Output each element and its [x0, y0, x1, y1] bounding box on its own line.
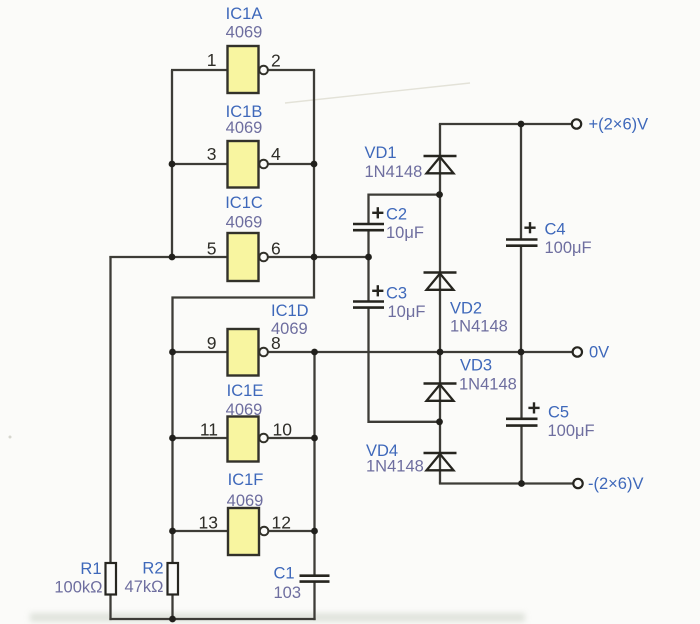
diode VD4	[424, 453, 457, 470]
svg-text:C3: C3	[386, 285, 407, 303]
svg-text:3: 3	[207, 144, 217, 164]
svg-text:4069: 4069	[226, 24, 263, 42]
resistor R1	[106, 563, 117, 595]
capacitor C3	[353, 285, 384, 307]
junction C4/C5 at 0V	[518, 349, 525, 356]
svg-text:+(2×6)V: +(2×6)V	[589, 116, 649, 134]
wire 0V rail from pin 8	[268, 351, 574, 353]
svg-text:10: 10	[273, 420, 293, 440]
junction pin 4 output	[311, 161, 318, 168]
op-amp U1 inverter IC1B	[228, 141, 268, 188]
svg-text:-(2×6)V: -(2×6)V	[588, 475, 643, 493]
svg-text:VD1: VD1	[365, 144, 397, 162]
svg-text:1N4148: 1N4148	[365, 163, 423, 181]
wire feedback from node 6 down-left to pin 9	[173, 257, 315, 352]
svg-text:0V: 0V	[589, 344, 609, 362]
svg-text:100kΩ: 100kΩ	[54, 579, 102, 597]
wire IC1D input	[173, 351, 229, 353]
capacitor C1	[300, 576, 330, 582]
junction pin 13 input	[169, 528, 176, 535]
svg-text:1N4148: 1N4148	[366, 458, 424, 476]
svg-text:5: 5	[207, 239, 217, 259]
svg-text:C1: C1	[274, 565, 295, 583]
wire input bus bottom (pins 9,11,13) to R2	[171, 352, 173, 564]
wire R1 branch vertical	[109, 256, 111, 564]
junction R2 bottom	[169, 616, 176, 623]
svg-text:47kΩ: 47kΩ	[125, 578, 164, 596]
capacitor C5	[506, 402, 540, 425]
wire IC1C output to C2/C3 node	[268, 256, 369, 258]
svg-text:1N4148: 1N4148	[459, 376, 517, 394]
junction pin 10 output	[311, 435, 318, 442]
wire C1 bottom leg	[313, 582, 315, 621]
wire R2 bottom leg	[171, 594, 173, 620]
svg-text:10μF: 10μF	[386, 224, 424, 242]
op-amp U1 inverter IC1D	[228, 329, 268, 376]
svg-text:IC1D: IC1D	[271, 302, 309, 320]
svg-text:2: 2	[271, 51, 281, 71]
svg-text:C4: C4	[545, 221, 566, 239]
junction VD2/VD3 at 0V	[437, 349, 444, 356]
junction VD1 anode / C2	[436, 191, 443, 198]
junction pin 3 input	[169, 161, 176, 168]
svg-text:6: 6	[271, 239, 281, 259]
junction pin 11 input	[169, 435, 176, 442]
svg-text:4069: 4069	[226, 119, 263, 137]
svg-text:IC1E: IC1E	[227, 382, 264, 400]
wire IC1A input	[171, 69, 229, 71]
wire IC1E input	[173, 437, 229, 439]
svg-text:VD3: VD3	[460, 357, 492, 375]
op-amp U1 inverter IC1F	[228, 508, 268, 555]
wire top rail +(2x6)V	[439, 123, 572, 125]
wire IC1F input	[173, 530, 229, 532]
svg-text:10μF: 10μF	[388, 303, 426, 321]
junction pin 12 output	[311, 528, 318, 535]
terminal +(2x6)V	[572, 119, 581, 128]
wire diode chain vertical VD1-VD4	[439, 124, 441, 484]
terminal 0V	[573, 347, 582, 356]
op-amp U1 inverter IC1E	[228, 417, 268, 462]
diode VD1	[424, 156, 457, 173]
wire output bus bottom (pins 8,10,12) to C1	[313, 352, 315, 576]
wire R1 bottom leg	[109, 594, 111, 620]
svg-text:IC1F: IC1F	[228, 471, 264, 489]
junction C5 bottom rail	[518, 480, 525, 487]
svg-text:8: 8	[271, 333, 281, 353]
terminal -(2x6)V	[573, 479, 582, 488]
resistor R2	[168, 563, 179, 595]
junction pin 8 output	[311, 349, 318, 356]
op-amp U1 inverter IC1A	[228, 46, 268, 93]
svg-text:13: 13	[199, 513, 218, 533]
wire IC1E output	[268, 437, 315, 439]
diode VD3	[424, 384, 457, 401]
svg-text:4069: 4069	[226, 401, 263, 419]
wire C2 to C3	[367, 230, 369, 302]
svg-text:4069: 4069	[227, 492, 264, 510]
svg-text:IC1C: IC1C	[225, 194, 263, 212]
junction VD4 cathode / C3	[436, 418, 443, 425]
svg-text:VD2: VD2	[450, 300, 482, 318]
wire C2 top to VD1/VD2 node	[369, 195, 440, 224]
svg-text:103: 103	[274, 584, 302, 602]
svg-text:4069: 4069	[226, 214, 263, 232]
wire C3 bottom to VD3/VD4 node	[369, 308, 440, 422]
svg-text:1N4148: 1N4148	[450, 318, 508, 336]
op-amp U1 inverter IC1C	[228, 233, 268, 281]
junction C2/C3 node 6	[365, 254, 372, 261]
wire IC1A output	[268, 69, 316, 71]
svg-text:IC1A: IC1A	[226, 5, 263, 23]
wire bottom rail -(2x6)V	[439, 482, 574, 484]
wire IC1B output	[268, 163, 315, 165]
svg-text:11: 11	[200, 420, 218, 440]
wire C4 top leg	[520, 124, 522, 240]
junction pin 5 input	[169, 254, 176, 261]
svg-text:100μF: 100μF	[548, 422, 595, 440]
svg-text:12: 12	[272, 513, 291, 533]
svg-text:R2: R2	[142, 560, 163, 578]
wire C4 bottom leg	[520, 246, 522, 352]
svg-text:100μF: 100μF	[545, 239, 592, 257]
junction C4 top rail	[518, 121, 525, 128]
svg-text:R1: R1	[80, 560, 101, 578]
svg-text:4: 4	[271, 144, 281, 164]
wire IC1C input from R1 branch	[109, 256, 228, 258]
wire C5 bottom leg	[520, 426, 522, 484]
junction pin 6 output	[311, 254, 318, 261]
svg-text:9: 9	[207, 333, 217, 353]
svg-text:C2: C2	[386, 206, 407, 224]
capacitor C2	[353, 207, 384, 230]
wire bottom rail R1-R2-C1	[109, 618, 315, 620]
capacitor C4	[506, 222, 538, 246]
svg-text:1: 1	[207, 50, 217, 70]
wire C5 top leg	[520, 352, 522, 419]
junction pin 9 input	[169, 349, 176, 356]
wire input bus top (pins 1,3,5)	[171, 70, 173, 257]
wire output bus top (pins 2,4,6)	[313, 70, 315, 257]
svg-text:C5: C5	[548, 404, 569, 422]
diode VD2	[424, 273, 457, 290]
wire IC1F output	[268, 530, 315, 532]
wire IC1B input	[172, 163, 229, 165]
